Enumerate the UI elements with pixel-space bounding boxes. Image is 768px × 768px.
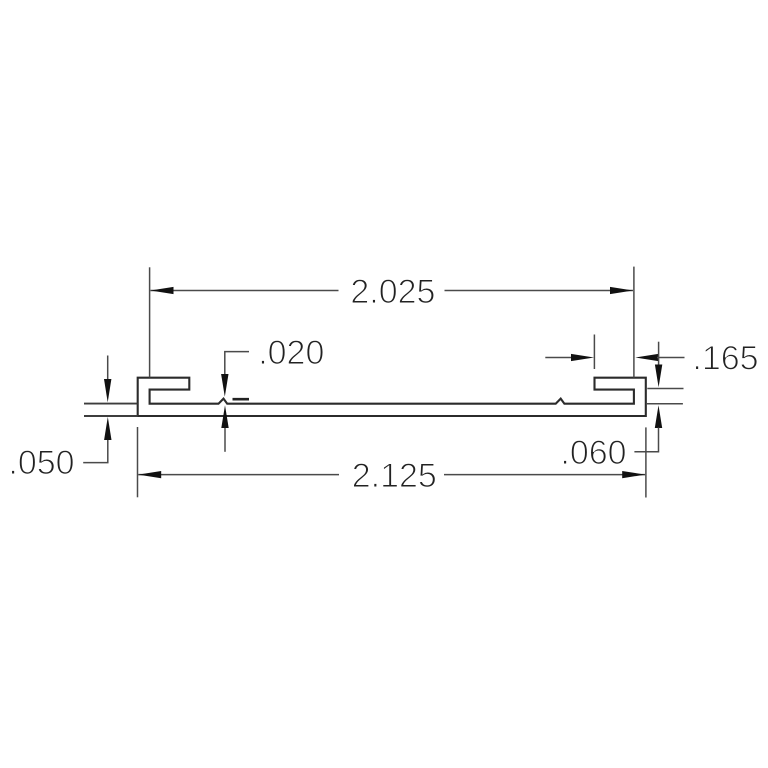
arrowhead .060 up <box>655 405 662 428</box>
.020 leader elbow and upper shaft <box>225 352 249 376</box>
svg-text:.050: .050 <box>8 444 74 482</box>
.050 upper arrow shaft <box>107 356 109 383</box>
.020 peak reference dash <box>233 398 250 401</box>
arrowhead 2.125 right <box>622 471 645 478</box>
.050 lower shaft and leader elbow <box>83 440 108 463</box>
.165 left tail <box>545 357 572 359</box>
svg-text:2.025: 2.025 <box>350 273 435 311</box>
dimension 2.125 extension line left <box>137 427 139 497</box>
svg-text:.165: .165 <box>692 339 758 377</box>
.060 upper shaft <box>658 342 660 366</box>
part profile: flat strip with hooked ends (section outline) <box>138 378 646 416</box>
.165 extension line (arm end) <box>593 335 595 370</box>
arrowhead .050 up <box>104 417 111 440</box>
arrowhead .060 down <box>655 365 662 388</box>
.165 right tail <box>657 357 685 359</box>
dimension line 2.125 <box>138 474 645 476</box>
dimension line 2.025 <box>151 290 634 292</box>
arrowhead 2.025 right <box>610 287 633 294</box>
svg-text:.020: .020 <box>258 334 324 372</box>
dimension 2.025 extension line left <box>149 267 151 377</box>
left surface extension lines (.050 thickness) <box>84 404 138 416</box>
dimension 2.025 extension line right (shared with .165) <box>633 267 635 378</box>
arrowhead 2.025 left <box>151 287 174 294</box>
arrowhead 2.125 left <box>138 471 161 478</box>
arrowhead .020 up <box>221 405 228 428</box>
svg-text:2.125: 2.125 <box>352 457 437 495</box>
arrowhead .020 down <box>221 374 228 397</box>
arrowhead .050 down <box>104 379 111 402</box>
.060 extension lines (slot faces) <box>647 389 684 404</box>
.020 lower shaft <box>224 428 226 452</box>
dimension 2.125 extension line right <box>645 427 647 497</box>
.060 lower shaft and leader elbow <box>634 428 658 452</box>
arrowhead .165 pointing right <box>571 354 594 361</box>
arrowhead .165 pointing left <box>635 354 658 361</box>
svg-text:.060: .060 <box>560 434 626 472</box>
